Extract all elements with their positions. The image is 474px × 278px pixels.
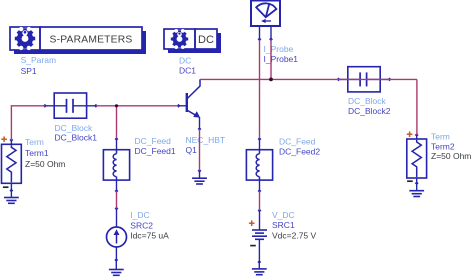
svg-text:S_Param: S_Param xyxy=(21,55,56,65)
svg-text:Term2: Term2 xyxy=(431,141,455,151)
svg-text:SRC2: SRC2 xyxy=(130,220,153,230)
svg-text:DC: DC xyxy=(179,56,191,66)
svg-text:Vdc=2.75 V: Vdc=2.75 V xyxy=(272,231,317,241)
svg-text:I_DC: I_DC xyxy=(130,210,149,220)
svg-text:Term1: Term1 xyxy=(25,148,49,158)
svg-text:Z=50 Ohm: Z=50 Ohm xyxy=(431,151,471,161)
svg-text:I_Probe1: I_Probe1 xyxy=(264,54,299,64)
svg-text:DC_Block2: DC_Block2 xyxy=(348,106,391,116)
svg-text:Idc=75 uA: Idc=75 uA xyxy=(130,231,169,241)
svg-text:Z=50 Ohm: Z=50 Ohm xyxy=(25,159,65,169)
svg-text:DC1: DC1 xyxy=(179,65,196,75)
svg-text:Term: Term xyxy=(25,137,44,147)
svg-text:DC_Block: DC_Block xyxy=(348,96,387,106)
svg-text:DC_Block: DC_Block xyxy=(55,123,94,133)
svg-text:V_DC: V_DC xyxy=(272,210,295,220)
svg-text:I_Probe: I_Probe xyxy=(264,44,294,54)
svg-text:SRC1: SRC1 xyxy=(272,220,295,230)
svg-text:Q1: Q1 xyxy=(186,145,198,155)
svg-text:DC_Block1: DC_Block1 xyxy=(55,132,98,142)
svg-text:S-PARAMETERS: S-PARAMETERS xyxy=(50,34,133,45)
svg-text:DC_Feed1: DC_Feed1 xyxy=(135,146,176,156)
svg-text:SP1: SP1 xyxy=(21,66,37,76)
svg-text:DC_Feed: DC_Feed xyxy=(279,136,316,146)
svg-text:DC: DC xyxy=(198,34,214,46)
svg-text:DC_Feed: DC_Feed xyxy=(135,136,172,146)
svg-text:Term: Term xyxy=(431,131,450,141)
svg-text:DC_Feed2: DC_Feed2 xyxy=(279,146,320,156)
svg-text:NEC_HBT: NEC_HBT xyxy=(186,135,226,145)
